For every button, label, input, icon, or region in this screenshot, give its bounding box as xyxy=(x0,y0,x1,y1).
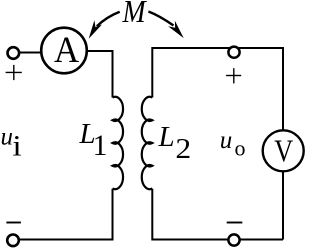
coupling arrow right (toward L2 branch) xyxy=(148,12,183,39)
svg-text:2: 2 xyxy=(175,134,191,165)
inductor L1 (4 humps, bulging right) xyxy=(113,97,124,189)
plus sign (output) xyxy=(226,68,241,83)
wire: input top terminal to ammeter xyxy=(18,52,42,54)
svg-text:i: i xyxy=(12,129,21,162)
wire: L2 top corner across to voltmeter branch xyxy=(152,48,283,130)
wire: L2 bottom across to voltmeter branch bottom xyxy=(152,189,283,240)
minus sign (output) xyxy=(227,222,243,224)
voltmeter V xyxy=(263,130,304,171)
wire: ammeter to L1 top corner xyxy=(87,51,113,98)
terminal: input top xyxy=(8,47,20,59)
svg-text:A: A xyxy=(54,29,79,70)
terminal: output top xyxy=(228,47,239,58)
svg-text:u: u xyxy=(220,127,233,154)
terminal: output bottom xyxy=(228,234,239,245)
inductor L2 (4 humps, bulging left) xyxy=(142,97,153,189)
ammeter A xyxy=(41,28,87,74)
svg-text:1: 1 xyxy=(93,130,108,162)
svg-text:M: M xyxy=(122,0,148,30)
terminal: input bottom xyxy=(7,235,19,247)
svg-text:V: V xyxy=(274,134,293,169)
wire: voltmeter to bottom right corner xyxy=(282,172,284,240)
svg-text:u: u xyxy=(1,124,14,151)
coupling arrow left (toward ammeter) xyxy=(89,12,120,39)
plus sign (input) xyxy=(6,65,22,80)
minus sign (input) xyxy=(6,222,21,224)
wire: L1 bottom to input bottom terminal xyxy=(18,189,113,240)
svg-text:o: o xyxy=(235,136,246,161)
svg-text:L: L xyxy=(158,121,175,153)
